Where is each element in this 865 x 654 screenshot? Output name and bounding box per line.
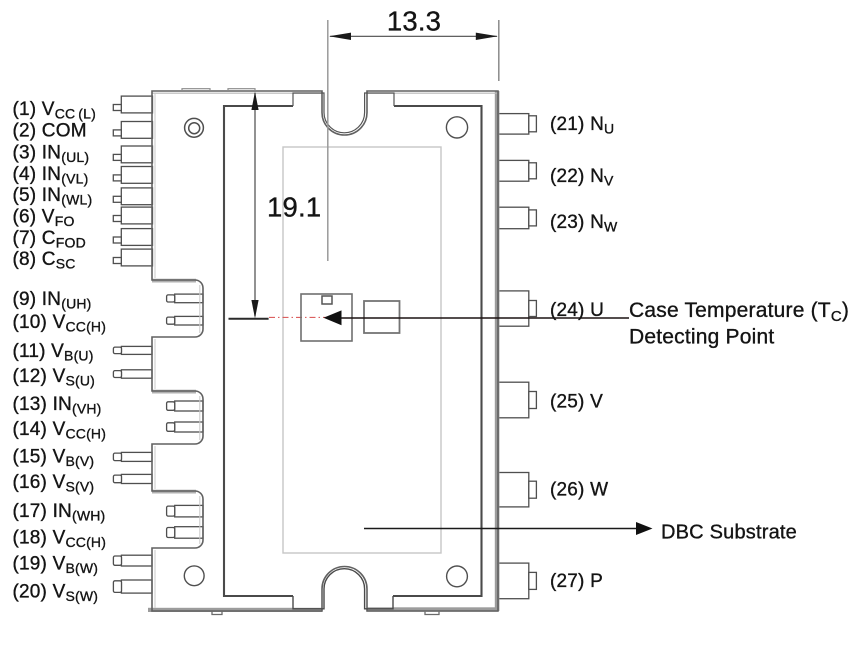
case rim around bottom notch — [293, 569, 393, 609]
pin 21 lead — [499, 114, 537, 135]
left block top shading 2 — [152, 390, 196, 394]
left block top shading 1 — [152, 279, 196, 283]
dim 13.3 left arrowhead — [329, 33, 351, 40]
pin 6 lead — [113, 207, 152, 224]
pin 12 lead — [113, 370, 152, 378]
svg-text:(27) P: (27) P — [550, 571, 603, 592]
dim 19.1 top arrowhead — [251, 92, 258, 111]
svg-text:(16) VS(V): (16) VS(V) — [13, 472, 95, 495]
svg-text:(12) VS(U): (12) VS(U) — [13, 366, 96, 389]
top edge mold tab right — [228, 89, 255, 91]
svg-text:(22) NV: (22) NV — [550, 166, 614, 189]
pin 19 lead — [113, 555, 152, 566]
Tc small square — [322, 296, 332, 304]
pin 15 lead — [113, 452, 152, 461]
pin 1 lead — [113, 96, 152, 113]
pin 8 lead — [113, 249, 152, 266]
bottom edge mold tab right — [425, 612, 439, 615]
Tc leader line — [341, 317, 629, 319]
svg-text:(19) VB(W): (19) VB(W) — [13, 553, 99, 576]
corner hole top-right — [446, 117, 467, 138]
svg-text:(5) IN(WL): (5) IN(WL) — [13, 185, 93, 208]
top edge mold tab left — [182, 89, 210, 91]
svg-text:Case Temperature (TC): Case Temperature (TC) — [629, 299, 849, 325]
pin 18 lead — [167, 527, 203, 539]
svg-text:(4) IN(VL): (4) IN(VL) — [13, 164, 89, 187]
svg-text:13.3: 13.3 — [387, 6, 441, 37]
Tc detect square — [301, 294, 352, 341]
pin 22 lead — [499, 160, 537, 181]
pin 20 lead — [113, 580, 152, 593]
block inner shade lines — [199, 285, 201, 333]
svg-text:Detecting Point: Detecting Point — [629, 326, 774, 349]
svg-text:(17) IN(WH): (17) IN(WH) — [13, 501, 106, 524]
svg-text:DBC Substrate: DBC Substrate — [661, 522, 797, 544]
svg-text:(21) NU: (21) NU — [550, 114, 614, 137]
pin 27 lead — [499, 563, 537, 599]
annotation: Case Temperature (Tc) Detecting Point — [629, 299, 849, 349]
pin 5 lead — [113, 188, 152, 205]
pin 24 lead — [499, 291, 537, 326]
DBC leader line — [364, 528, 638, 530]
pin 10 lead — [167, 316, 203, 325]
dim 19.1 line — [254, 93, 256, 316]
svg-text:(14) VCC(H): (14) VCC(H) — [13, 419, 107, 442]
svg-text:(18) VCC(H): (18) VCC(H) — [13, 527, 107, 550]
DBC substrate outline (light) — [283, 147, 441, 553]
dim 13.3 right arrowhead — [476, 33, 498, 40]
pin 26 lead — [499, 473, 537, 507]
svg-text:(20) VS(W): (20) VS(W) — [13, 581, 99, 604]
left edge inner shade line — [154, 93, 156, 278]
case rim around top notch — [293, 93, 394, 133]
pin 7 lead — [113, 229, 152, 246]
left block top shading 3 — [152, 490, 196, 494]
svg-text:(11) VB(U): (11) VB(U) — [13, 341, 94, 364]
pin 2 lead — [113, 122, 152, 139]
svg-text:(1) VCC (L): (1) VCC (L) — [13, 99, 97, 122]
svg-text:(9) IN(UH): (9) IN(UH) — [13, 289, 92, 312]
chip square — [364, 301, 400, 333]
bottom edge mold tab left — [212, 612, 222, 615]
pin 4 lead — [113, 167, 152, 184]
pin 16 lead — [113, 474, 152, 483]
svg-text:(2) COM: (2) COM — [13, 120, 87, 141]
pin 25 lead — [499, 382, 537, 418]
case top-face inner rim (dark portions) — [224, 106, 482, 596]
svg-text:(23) NW: (23) NW — [550, 212, 618, 235]
Tc red centerline (dash-dot) — [269, 316, 341, 318]
top edge shading — [152, 92, 322, 94]
dim 13.3 right extension line — [498, 20, 500, 81]
svg-text:(3) IN(UL): (3) IN(UL) — [13, 142, 90, 165]
svg-text:19.1: 19.1 — [267, 192, 321, 223]
svg-text:(26) W: (26) W — [550, 479, 608, 500]
pin 17 lead — [167, 505, 203, 517]
corner hole top-left (ring) — [185, 118, 204, 137]
svg-text:(10) VCC(H): (10) VCC(H) — [13, 312, 107, 335]
pin 11 lead — [113, 346, 152, 354]
svg-text:(25) V: (25) V — [550, 391, 603, 412]
svg-text:(24) U: (24) U — [550, 300, 604, 321]
Tc arrowhead — [324, 310, 342, 325]
pin 9 lead — [167, 294, 203, 303]
pin 14 lead — [167, 422, 203, 432]
svg-text:(8) CSC: (8) CSC — [13, 249, 76, 272]
case right side wall shading — [495, 91, 500, 611]
svg-text:(6) VFO: (6) VFO — [13, 206, 75, 229]
dim 13.3 line — [330, 35, 497, 37]
dim 13.3 extension centerline — [327, 20, 329, 261]
svg-text:(15) VB(V): (15) VB(V) — [13, 446, 95, 469]
pin 3 lead — [113, 146, 152, 163]
dim 19.1 bottom arrowhead — [251, 300, 258, 319]
DBC arrowhead — [636, 522, 653, 535]
dim 19.1 end tick — [229, 318, 269, 320]
svg-text:(13) IN(VH): (13) IN(VH) — [13, 394, 102, 417]
case bottom wall shading — [148, 608, 322, 612]
pin 23 lead — [499, 207, 537, 229]
module outer case outline — [152, 91, 498, 611]
pin 13 lead — [167, 401, 203, 411]
svg-text:(7) CFOD: (7) CFOD — [13, 228, 86, 251]
corner hole bottom-right — [447, 566, 468, 587]
corner hole bottom-left — [184, 566, 204, 586]
